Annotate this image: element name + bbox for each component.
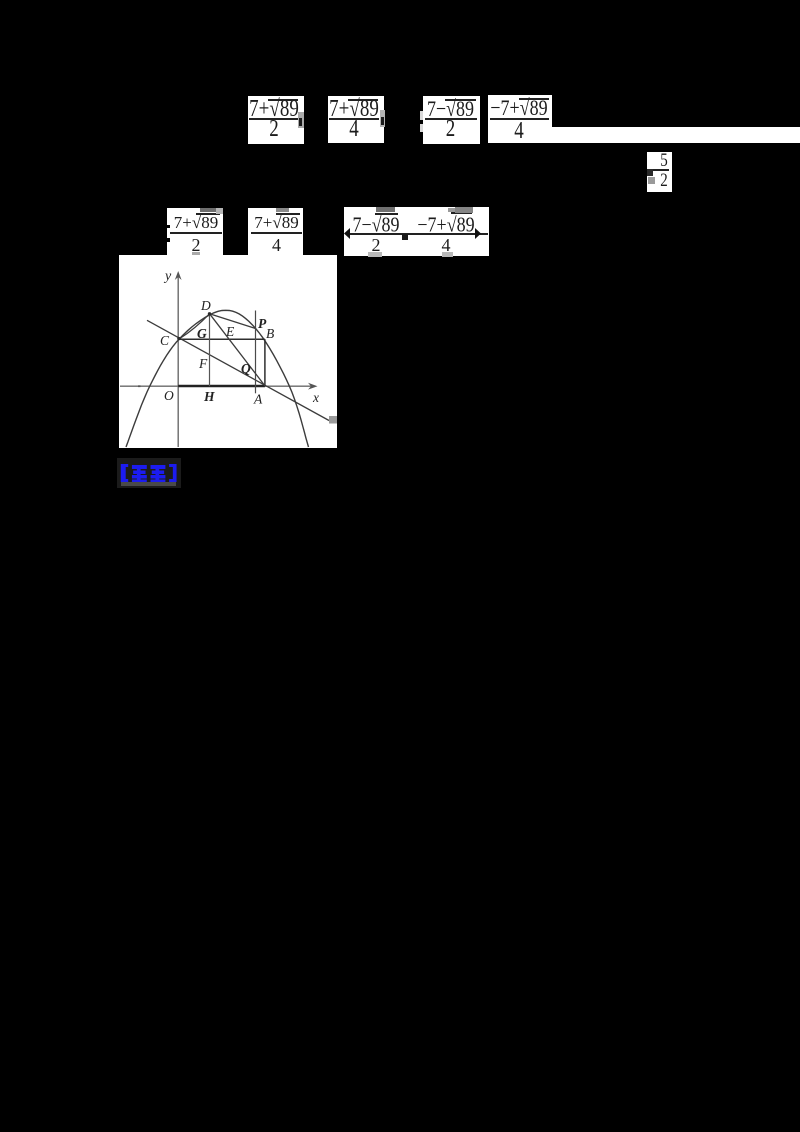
arc C to D — [180, 314, 210, 339]
x-axis — [120, 385, 315, 387]
light ticks below box C — [368, 252, 382, 257]
graph image — [119, 255, 337, 448]
svg-text:y: y — [163, 269, 172, 284]
char 1 — [132, 465, 147, 482]
svg-text:D: D — [200, 298, 211, 313]
formula box 1: (7+sqrt89)/2 — [248, 96, 304, 144]
rectangle top CB — [178, 338, 265, 340]
vertical line through P — [255, 311, 257, 394]
svg-text:Q: Q — [241, 361, 251, 376]
svg-text:C: C — [160, 333, 170, 348]
left arrow mark — [344, 228, 350, 239]
segment D to A — [210, 314, 265, 386]
svg-text:H: H — [203, 389, 215, 404]
svg-text:F: F — [198, 356, 208, 371]
junction dot C — [177, 337, 180, 340]
formula box 3: (7-sqrt89)/2 — [423, 96, 480, 144]
white band to right edge — [552, 127, 800, 143]
svg-text:x: x — [312, 390, 319, 405]
rectangle right AB — [264, 339, 266, 386]
gray marks on box C top — [376, 207, 395, 212]
blue link text — [117, 458, 181, 488]
dark mark left of 5/2 — [647, 169, 653, 176]
gray underline under blue text — [121, 482, 176, 486]
gray handle at line end — [329, 416, 338, 424]
row3 wide box C: <- (7-sqrt89)/2 . (-7+sqrt89)/4 -> — [344, 207, 489, 256]
semicolon before box 3 — [420, 111, 424, 120]
gray marks on box A — [200, 208, 216, 212]
svg-text:B: B — [266, 326, 274, 341]
small dot on x-axis — [138, 385, 141, 387]
svg-text:G: G — [197, 326, 207, 341]
line through C and A extended — [147, 320, 329, 420]
right arrow mark — [475, 228, 481, 239]
svg-text:O: O — [164, 388, 174, 403]
parabola — [126, 310, 309, 447]
black notches on box A left edge — [166, 225, 170, 229]
point labels — [160, 269, 319, 407]
gray marks on box B — [276, 208, 289, 212]
vertical DH — [209, 314, 211, 387]
svg-text:A: A — [253, 392, 263, 407]
char 2 — [151, 465, 166, 482]
formula box 4: (-7+sqrt89)/4 — [488, 95, 552, 143]
comma after box 1 — [298, 112, 304, 128]
segment D to P — [210, 314, 256, 329]
rectangle bottom OA thick — [178, 385, 265, 387]
small box 5/2 — [647, 152, 672, 192]
formula box 2: (7+sqrt89)/4 — [328, 96, 384, 143]
row3 box A: (7+sqrt89)/2 — [167, 208, 223, 256]
y-axis — [177, 274, 179, 447]
left bracket — [121, 464, 128, 482]
comma after box 2 — [380, 110, 385, 127]
middle square dot — [402, 234, 408, 240]
svg-text:E: E — [225, 324, 235, 339]
junction dot D — [208, 312, 211, 315]
right bracket — [169, 464, 176, 482]
row3 box B: (7+sqrt89)/4 — [248, 208, 303, 256]
